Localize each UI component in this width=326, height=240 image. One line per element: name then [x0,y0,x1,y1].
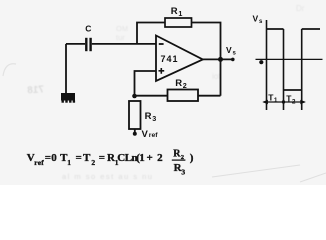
dimension arrow line T1 T2 [262,100,306,105]
waveform falling edge [283,29,285,110]
node Vref terminal [133,132,137,136]
svg-text:R: R [171,6,178,17]
ground [61,93,75,103]
svg-text:741: 741 [161,54,179,64]
label T2 [286,93,296,105]
svg-text:=: = [99,152,105,164]
wire R1 to output vertical [192,23,221,96]
waveform rising edge [301,29,303,110]
svg-text:3: 3 [181,168,185,177]
svg-text:3: 3 [152,114,156,123]
waveform horizontal axis [256,58,323,60]
svg-text:1: 1 [178,9,182,18]
svg-text:T: T [83,152,91,164]
svg-text:1: 1 [67,158,71,167]
label Vref [142,129,159,140]
svg-text:1: 1 [274,97,278,104]
label Vs output [226,45,237,57]
svg-text:2: 2 [183,81,187,90]
output wire [203,58,233,60]
node origin dot [259,60,263,64]
waveform low segment [284,89,302,91]
svg-text:ref: ref [34,158,44,167]
svg-text:s: s [259,19,263,25]
svg-text:2: 2 [157,152,163,164]
waveform vertical axis [266,20,268,110]
ground lead wire [65,44,67,93]
op-amp U1 741 [156,36,203,82]
faint page-edge pencil lines bottom right [212,165,326,182]
wire branch up to R1 [137,23,165,44]
wire R3 to Vref [134,129,136,133]
formula Vref = 0 T1 = T2 = R1CLn(1 + 2 R2/R3) [27,149,194,177]
label T1 [268,92,278,104]
svg-text:s: s [233,51,237,57]
waveform square wave high segment 2 [302,28,320,30]
resistor R2 [168,78,199,101]
svg-text:V: V [142,129,149,140]
wire ground to capacitor [66,43,85,45]
svg-text:=: = [45,152,51,164]
svg-text:=: = [76,152,82,164]
svg-text:R: R [145,111,152,122]
wire noninverting input branch [135,71,157,96]
svg-text:V: V [253,14,259,24]
svg-text:1: 1 [139,152,145,164]
svg-text:V: V [226,45,232,55]
fraction bar [172,159,186,161]
svg-text:+: + [147,152,153,164]
ghost print-through artifacts [24,84,45,96]
svg-text:C: C [85,24,91,34]
wire capacitor to inverting input [92,43,156,45]
svg-text:ref: ref [149,132,158,139]
svg-text:0: 0 [51,152,57,164]
wire junction to R2 [135,95,168,97]
resistor R3 [129,101,156,129]
svg-text:2: 2 [91,158,95,167]
svg-text:): ) [190,152,194,164]
node junction R2 R3 [132,94,137,99]
node output junction [218,57,223,62]
svg-text:R: R [175,78,182,89]
capacitor C [85,24,92,52]
waveform square wave high segment 1 [267,28,284,30]
wire R2 to output vertical [198,95,221,97]
waveform label Vs [253,14,264,26]
node Vs terminal [231,58,235,62]
svg-text:2: 2 [292,98,296,105]
resistor R1 [165,6,192,27]
